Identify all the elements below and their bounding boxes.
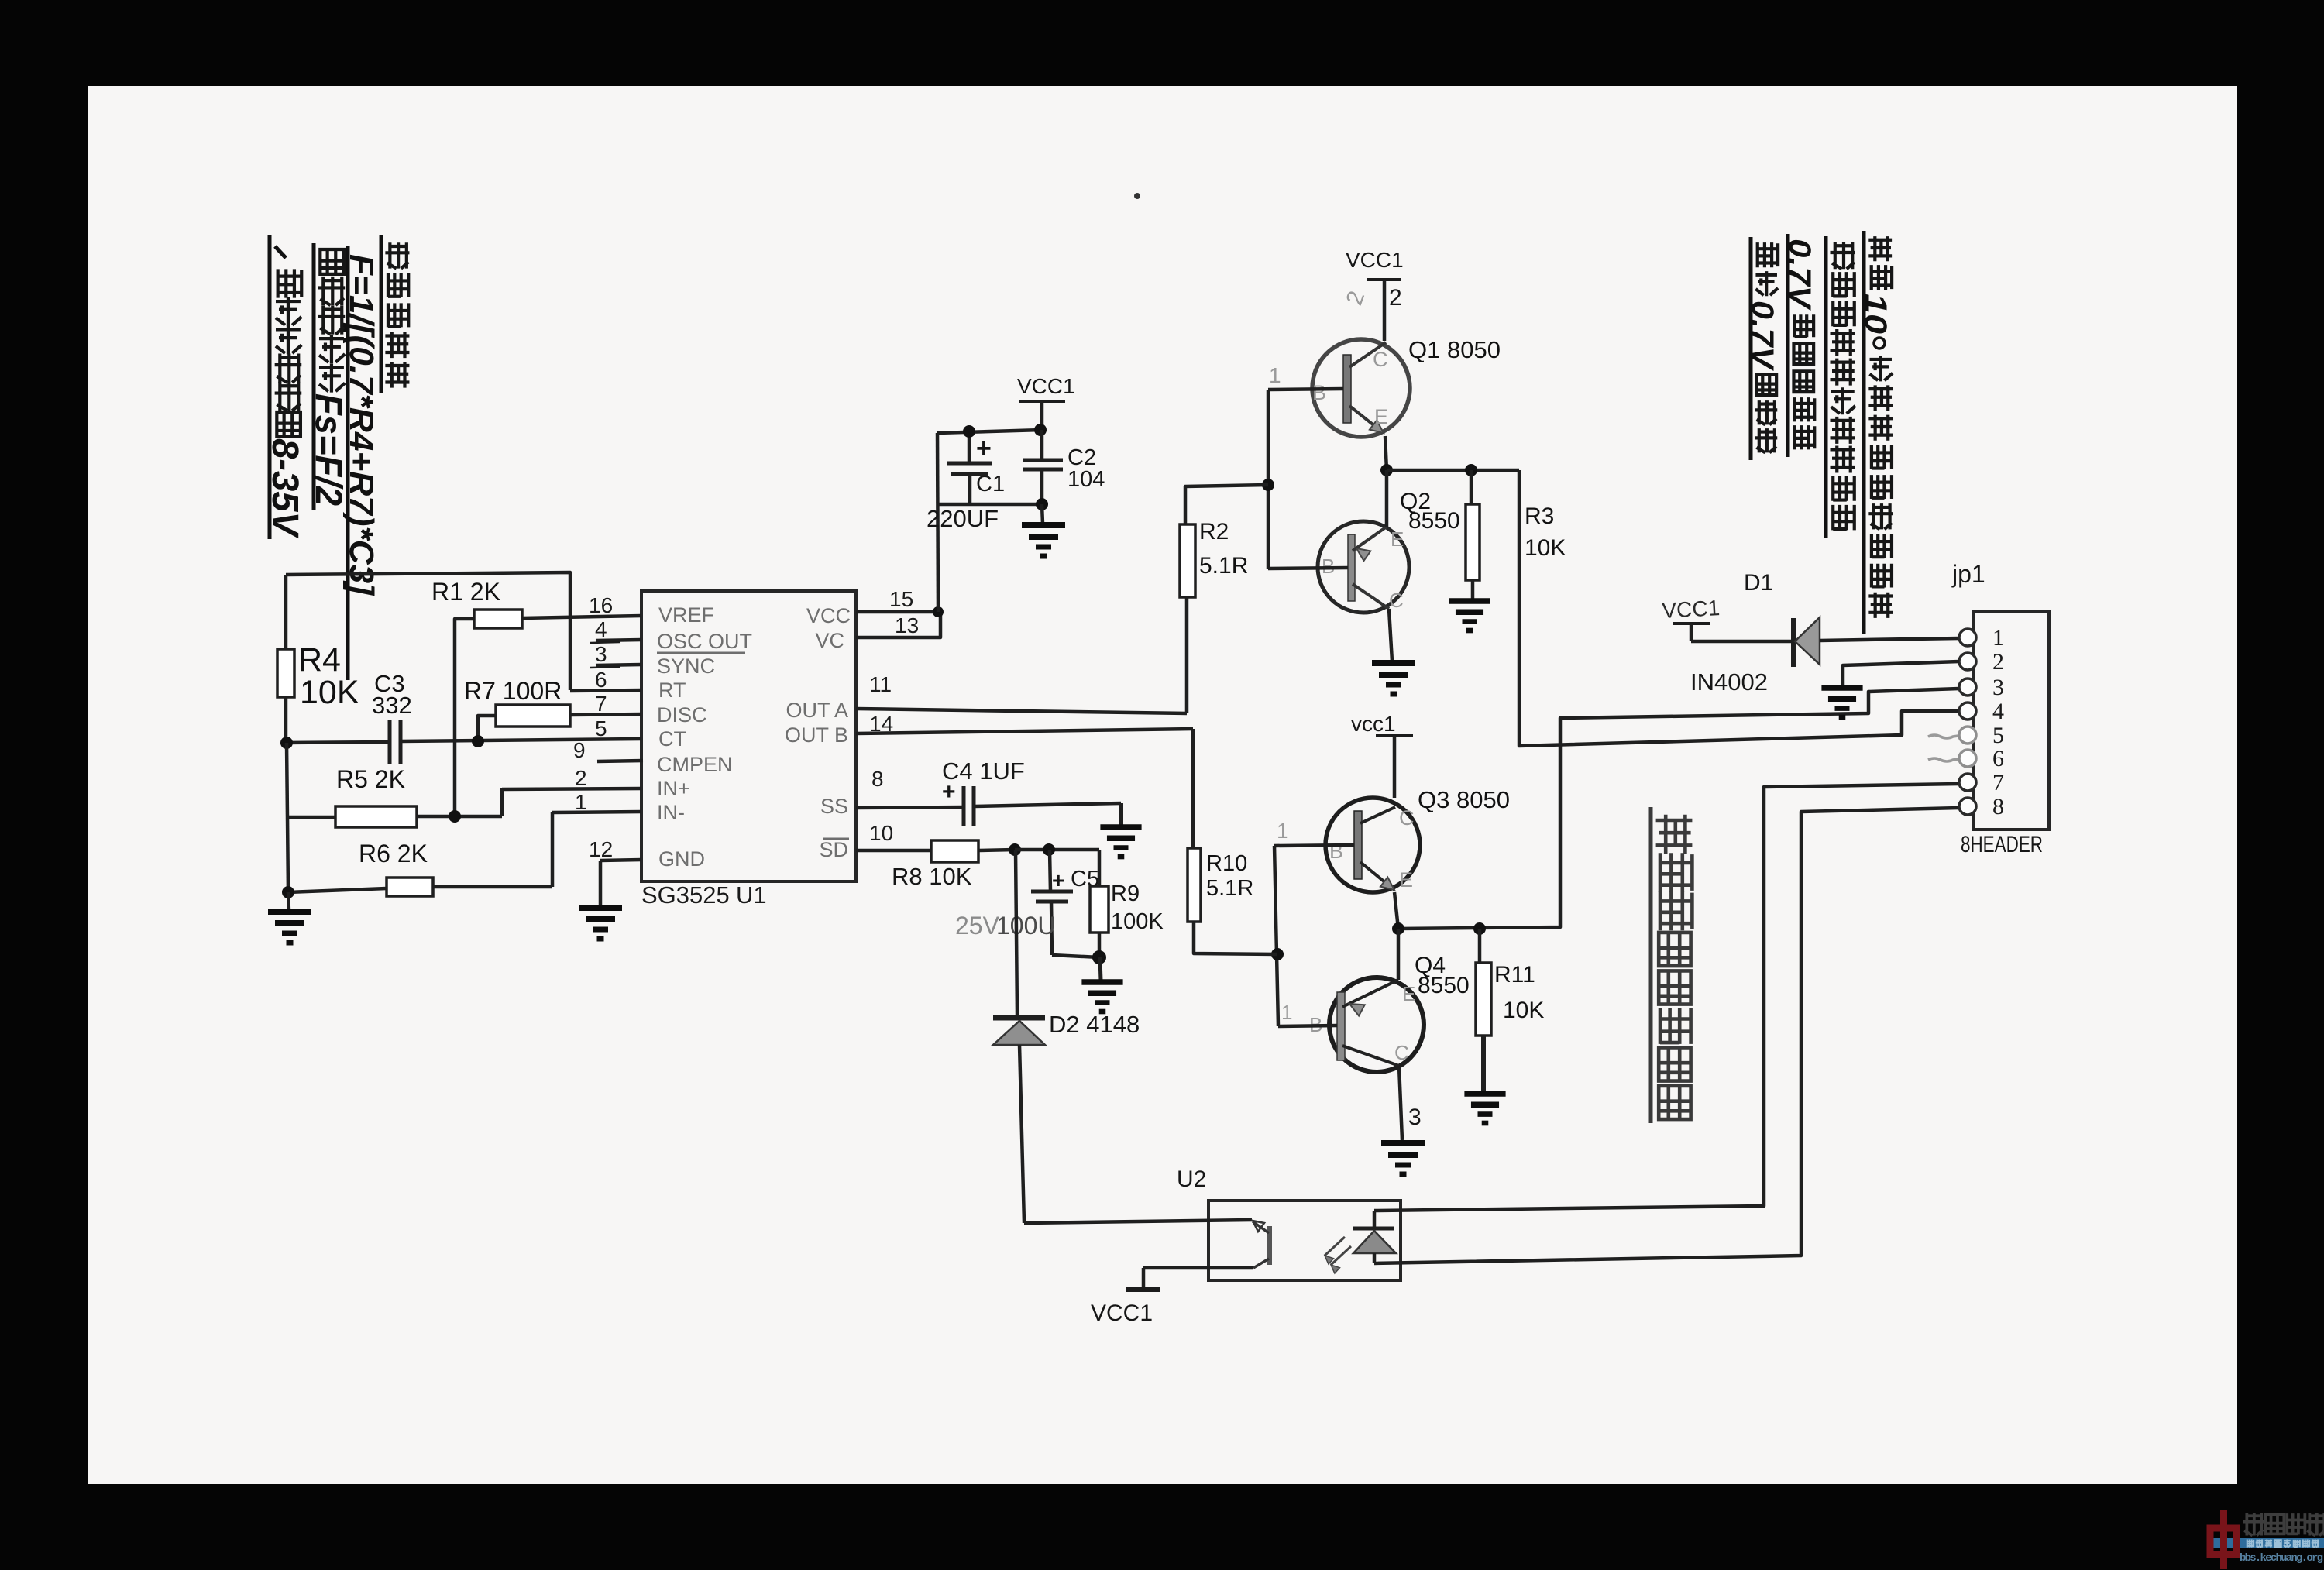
- svg-text:4: 4: [595, 617, 607, 641]
- U2 phototransistor: [1253, 1221, 1272, 1268]
- connector jp1 pin 8: [1959, 794, 2004, 819]
- wire pin11 OUT A to R2: [856, 672, 1187, 713]
- resistor R11 10K: [1476, 929, 1544, 1091]
- svg-text:CT: CT: [658, 727, 686, 751]
- svg-text:8550: 8550: [1418, 973, 1470, 998]
- ground below R9: [1081, 957, 1122, 1012]
- svg-text:1: 1: [1269, 363, 1281, 387]
- transistor Q3 8050 NPN: [1325, 786, 1510, 892]
- svg-text:B: B: [1329, 840, 1343, 863]
- wire D2 to U2 collector: [1024, 1220, 1252, 1223]
- svg-text:R9: R9: [1111, 881, 1140, 906]
- svg-text:OUT B: OUT B: [785, 723, 848, 747]
- svg-text:5: 5: [595, 716, 607, 740]
- wire R8 node rail to R9: [1015, 848, 1099, 852]
- wire Q3/Q4 base rail: [1274, 846, 1278, 1026]
- svg-text:E: E: [1399, 868, 1413, 891]
- svg-text:1: 1: [1277, 819, 1289, 843]
- svg-text:11: 11: [869, 672, 892, 696]
- svg-text:VC: VC: [815, 629, 844, 652]
- capacitor C3 332: [287, 670, 412, 764]
- U1 right pin names: [785, 604, 851, 861]
- svg-text:2: 2: [1992, 649, 2004, 675]
- node R5/R1 junction: [449, 810, 461, 823]
- connector jp1 pin 3: [1959, 675, 2004, 700]
- svg-text:332: 332: [372, 692, 412, 719]
- transistor Q2 8550 PNP: [1318, 489, 1460, 613]
- svg-text:5.1R: 5.1R: [1199, 553, 1248, 579]
- power vcc1 at Q3: [1351, 712, 1413, 798]
- power VCC1 at D1: [1662, 596, 1721, 641]
- svg-text:C: C: [1373, 348, 1388, 371]
- transistor Q4 8550 PNP: [1309, 953, 1470, 1072]
- svg-text:8: 8: [1992, 794, 2004, 819]
- capacitor C4 1UF: [942, 758, 1121, 826]
- svg-text:R10: R10: [1206, 851, 1247, 876]
- svg-text:0.7V: 0.7V: [1783, 239, 1817, 311]
- node R11 top junction: [1473, 922, 1486, 935]
- note: formula F=1/[(0.7*R4+R7)*C3] column: [342, 246, 380, 680]
- note: working voltage range 8-35V column: [264, 235, 305, 539]
- svg-text:OSC OUT: OSC OUT: [657, 630, 752, 653]
- wire Q3 emitter to node: [1394, 892, 1398, 929]
- svg-text:R6 2K: R6 2K: [359, 840, 428, 867]
- wire Q3/Q4 output to header pin3: [1398, 689, 1959, 929]
- svg-text:CMPEN: CMPEN: [657, 753, 733, 776]
- svg-text:VCC1: VCC1: [1662, 596, 1721, 623]
- svg-text:VCC: VCC: [806, 604, 851, 627]
- svg-text:15: 15: [889, 587, 913, 611]
- svg-text:IN-: IN-: [657, 801, 685, 824]
- note: switching frequency Fs=F/2 column: [308, 243, 349, 510]
- ground near header pin2: [1821, 688, 1862, 717]
- resistor R8 10K: [892, 840, 1015, 890]
- svg-text:C4 1UF: C4 1UF: [942, 758, 1025, 785]
- svg-text:R5 2K: R5 2K: [336, 765, 405, 793]
- ground below C2: [1022, 504, 1065, 556]
- wire Q4 emitter stub: [1397, 929, 1401, 980]
- node junction pin15/pin13: [933, 606, 944, 617]
- wire Q3 base: [1274, 819, 1354, 846]
- svg-text:U2: U2: [1177, 1166, 1206, 1192]
- watermark kechuang logo: [2207, 1510, 2324, 1569]
- svg-text:jp1: jp1: [1951, 560, 1985, 588]
- svg-text:IN4002: IN4002: [1690, 668, 1768, 696]
- resistor R7 100R: [464, 677, 570, 741]
- ground at left rail: [268, 892, 311, 943]
- svg-text:B: B: [1312, 381, 1326, 404]
- wire Q4 collector to ground: [1399, 1066, 1422, 1140]
- svg-text:GND: GND: [658, 847, 705, 871]
- ground below R11: [1464, 1094, 1505, 1123]
- wire top rail from R4 to pin16 column: [286, 572, 570, 690]
- svg-text:Q1 8050: Q1 8050: [1408, 336, 1501, 363]
- svg-text:bbs.kechuang.org: bbs.kechuang.org: [2240, 1552, 2323, 1565]
- wire pin12 GND: [589, 837, 641, 906]
- connector jp1 pin 1: [1959, 625, 2004, 651]
- svg-text:6: 6: [1992, 746, 2004, 771]
- svg-text:D2 4148: D2 4148: [1049, 1011, 1140, 1038]
- svg-text:10K: 10K: [1525, 535, 1566, 561]
- svg-text:DISC: DISC: [657, 703, 707, 727]
- ground at U1 pin12: [579, 908, 622, 939]
- wire pin16 VREF to R1: [522, 593, 641, 618]
- svg-text:Fs=F/2: Fs=F/2: [308, 393, 349, 506]
- wire Q1 emitter to node: [1385, 436, 1387, 470]
- node stray scan dot: [1134, 193, 1140, 199]
- svg-text:16: 16: [589, 593, 613, 617]
- svg-text:9: 9: [573, 738, 586, 762]
- svg-text:VREF: VREF: [658, 603, 714, 627]
- svg-text:8-35V: 8-35V: [264, 438, 305, 539]
- svg-text:8550: 8550: [1408, 508, 1460, 534]
- wire pin13 VC: [856, 613, 940, 637]
- svg-text:R3: R3: [1525, 503, 1554, 529]
- node R7/CT junction: [472, 735, 484, 747]
- transistor Q1 8050 NPN: [1312, 336, 1501, 437]
- node R6/left rail junction: [282, 886, 294, 898]
- svg-text:VCC1: VCC1: [1017, 374, 1075, 398]
- wire pin8 SS to C4: [856, 767, 964, 808]
- svg-text:4: 4: [1992, 699, 2004, 724]
- wire pin9 CMPEN stub: [573, 738, 643, 762]
- resistor R10 5.1R: [1188, 729, 1277, 954]
- connector jp1 pin 4: [1959, 699, 2004, 724]
- svg-text:SYNC: SYNC: [657, 654, 715, 678]
- svg-text:SG3525: SG3525: [641, 881, 730, 909]
- svg-text:R2: R2: [1199, 519, 1229, 545]
- node R3 top junction: [1465, 464, 1477, 476]
- node C1 top junction: [963, 425, 975, 438]
- resistor R2 5.1R: [1180, 485, 1268, 713]
- node R8/D2 junction: [1009, 843, 1021, 856]
- wire U2 emitter to VCC1: [1143, 1268, 1253, 1288]
- svg-text:+: +: [976, 434, 992, 463]
- svg-text:R7 100R: R7 100R: [464, 677, 562, 705]
- ground below R3: [1449, 601, 1490, 630]
- power VCC1 top: [1017, 374, 1075, 431]
- svg-text:10: 10: [1858, 294, 1893, 334]
- svg-text:U1: U1: [736, 881, 767, 909]
- svg-text:IN+: IN+: [657, 777, 690, 800]
- resistor R9 100K: [1090, 850, 1164, 957]
- svg-text:vcc1: vcc1: [1351, 712, 1396, 736]
- node Q1 emitter junction: [1380, 464, 1393, 476]
- resistor R1 2K: [431, 578, 522, 816]
- node CT junction left: [280, 737, 293, 749]
- svg-text:D1: D1: [1744, 570, 1773, 596]
- svg-text:0.7V: 0.7V: [1745, 301, 1779, 372]
- svg-text:13: 13: [895, 613, 919, 637]
- wire pin6 RT: [570, 668, 641, 692]
- capacitor C2 104: [1023, 430, 1105, 504]
- power VCC1 below U2: [1091, 1290, 1160, 1326]
- connector jp1 8HEADER body: [1951, 560, 2049, 857]
- wire Q1/Q2 base rail: [1267, 390, 1270, 569]
- svg-text:C: C: [1389, 589, 1404, 612]
- svg-text:E: E: [1374, 405, 1388, 428]
- resistor R4 10K: [277, 575, 359, 743]
- wire VCC1 node rail: [937, 430, 1042, 612]
- wire pin3 stub: [590, 642, 641, 668]
- svg-text:SD: SD: [819, 838, 848, 861]
- node base rail / R10 junction: [1271, 948, 1284, 960]
- svg-text:10K: 10K: [300, 674, 359, 711]
- svg-text:R11: R11: [1494, 962, 1535, 988]
- svg-text:2: 2: [575, 766, 587, 790]
- svg-text:OUT A: OUT A: [786, 699, 848, 722]
- svg-text:E: E: [1402, 982, 1415, 1005]
- svg-text:R8 10K: R8 10K: [892, 863, 972, 890]
- op-amp U1 SG3525 PWM controller body: [641, 591, 856, 909]
- wire Q1 base: [1268, 363, 1343, 390]
- svg-text:VCC1: VCC1: [1091, 1300, 1153, 1326]
- svg-text:8HEADER: 8HEADER: [1961, 832, 2043, 857]
- svg-text:7: 7: [1992, 770, 2004, 795]
- resistor R3 10K: [1466, 470, 1566, 599]
- resistor R6 2K: [288, 812, 552, 896]
- svg-text:6: 6: [595, 668, 607, 692]
- capacitor C5 25V100U: [955, 850, 1099, 957]
- node base rail / R2 junction: [1262, 479, 1274, 491]
- wire pin15 VCC: [856, 587, 938, 612]
- power VCC1 at Q1: [1342, 248, 1404, 341]
- node C5 junction: [1043, 843, 1055, 856]
- svg-text:100K: 100K: [1111, 909, 1164, 934]
- note: vendor text QingXiang electronics column: [1651, 807, 1692, 1123]
- svg-text:2: 2: [1389, 285, 1402, 311]
- U2 LED: [1325, 1211, 1396, 1273]
- wire pin2 IN+: [502, 766, 641, 790]
- wire Q2 base connects rail: [1268, 568, 1348, 569]
- svg-text:104: 104: [1067, 467, 1105, 492]
- diode D2 4148: [993, 850, 1140, 1223]
- svg-text:10K: 10K: [1503, 998, 1544, 1023]
- svg-text:SS: SS: [820, 795, 848, 818]
- note: high level disables output column: [1826, 236, 1855, 538]
- resistor R5 2K: [287, 765, 502, 827]
- svg-text:3: 3: [595, 642, 607, 666]
- wire pin5 CT: [401, 716, 641, 741]
- wire left vertical rail R4..ground: [287, 743, 288, 892]
- svg-text:1: 1: [1281, 1001, 1292, 1024]
- wire Q2 collector to ground: [1389, 609, 1392, 661]
- svg-text:7: 7: [595, 692, 607, 716]
- svg-text:E: E: [1391, 527, 1404, 551]
- node C2 bottom junction: [1036, 498, 1048, 510]
- wire pin7 DISC: [570, 692, 641, 716]
- ground at Q2 collector: [1372, 663, 1415, 694]
- svg-text:25V: 25V: [955, 912, 1000, 940]
- diode D1 IN4002: [1690, 570, 1959, 696]
- wire U2 LED cathode to header pin7: [1374, 784, 1959, 1211]
- svg-text:R4: R4: [298, 641, 341, 679]
- svg-text:Q3 8050: Q3 8050: [1418, 786, 1510, 813]
- connector jp1 pin 6: [1928, 746, 2004, 771]
- svg-text:220UF: 220UF: [927, 505, 999, 532]
- svg-text:RT: RT: [658, 679, 686, 702]
- wire header pin2 to ground: [1843, 661, 1959, 686]
- svg-text:3: 3: [1408, 1104, 1422, 1130]
- wire U2 LED anode to header pin8: [1374, 808, 1959, 1263]
- connector jp1 pin 2: [1959, 649, 2004, 675]
- wire pin4 stub: [590, 617, 641, 643]
- connector jp1 pin 5: [1928, 723, 2004, 748]
- wire pin1 IN-: [552, 790, 641, 814]
- ground after C4: [1100, 827, 1141, 857]
- svg-text:3: 3: [1992, 675, 2004, 700]
- wire pin10 SD to R8: [856, 821, 931, 850]
- node Q3 emitter junction: [1392, 922, 1404, 935]
- svg-text:2: 2: [1342, 287, 1370, 308]
- wire Q2 emitter stub: [1385, 470, 1389, 527]
- wire Q1/Q2 output to header pin4: [1519, 470, 1959, 746]
- svg-text:1: 1: [575, 790, 587, 814]
- svg-text:5.1R: 5.1R: [1206, 876, 1253, 901]
- svg-text:1: 1: [1992, 625, 2004, 651]
- wire Q1 emitter node to R3/right rail: [1387, 469, 1519, 472]
- svg-text:R1 2K: R1 2K: [431, 578, 500, 606]
- node R9/C5 bottom junction: [1092, 950, 1106, 964]
- svg-text:VCC1: VCC1: [1346, 248, 1404, 272]
- svg-text:12: 12: [589, 837, 613, 861]
- note: below 0.7V full output column: [1745, 237, 1779, 460]
- svg-text:C: C: [1394, 1041, 1409, 1064]
- svg-text:10: 10: [869, 821, 893, 845]
- svg-text:8: 8: [871, 767, 884, 791]
- svg-text:5: 5: [1992, 723, 2004, 748]
- optocoupler U2: [1177, 1166, 1401, 1280]
- node VCC1/C2 junction: [1034, 424, 1047, 436]
- capacitor C1 220UF: [927, 431, 1005, 532]
- connector jp1 pin 7: [1959, 770, 2004, 795]
- note: oscillation frequency annotation column 1: [381, 235, 409, 393]
- note: pin 10 external shutdown signal input column: [1858, 231, 1893, 634]
- U1 left pin names: [657, 603, 752, 871]
- wire C1/C2 bottom rail: [939, 503, 1042, 507]
- svg-text:100U: 100U: [996, 912, 1056, 940]
- svg-text:14: 14: [869, 712, 893, 736]
- wire pin14 OUT B to R10: [856, 712, 1193, 736]
- svg-text:+: +: [1052, 868, 1064, 892]
- svg-text:C1: C1: [976, 472, 1005, 496]
- svg-text:C: C: [1399, 806, 1415, 830]
- note: 0.7V single-ended output column: [1783, 234, 1817, 457]
- ground at Q4 collector: [1381, 1143, 1425, 1174]
